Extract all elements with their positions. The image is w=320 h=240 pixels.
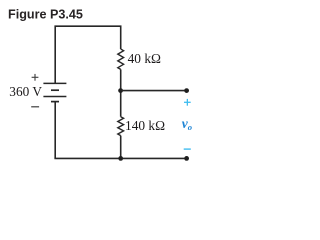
terminal dot upper right (184, 88, 189, 93)
svg-text:vo: vo (182, 116, 192, 132)
svg-text:360 V: 360 V (9, 84, 42, 99)
terminal dot lower right (184, 156, 189, 161)
wire middle horizontal to output (121, 90, 187, 92)
wire left vertical lower (54, 102, 56, 159)
output minus sign (cyan) (184, 148, 191, 150)
resistor R2 140k zigzag (118, 117, 124, 136)
svg-text:40 kΩ: 40 kΩ (128, 51, 161, 66)
resistor R1 40k zigzag (118, 49, 124, 69)
wire top horizontal + left and right verticals (55, 26, 121, 83)
wire right vertical bottom lead (120, 136, 122, 159)
svg-text:140 kΩ: 140 kΩ (125, 118, 165, 133)
battery plus sign (32, 74, 39, 81)
node junction dot bottom (118, 156, 123, 161)
output plus sign (cyan) (184, 99, 191, 106)
wire bottom horizontal (54, 157, 186, 159)
svg-text:Figure P3.45: Figure P3.45 (8, 7, 83, 21)
wire right vertical between resistors (120, 69, 122, 116)
node junction dot middle (118, 88, 123, 93)
voltage source V1 360V battery (43, 83, 66, 101)
battery minus sign (31, 106, 39, 108)
